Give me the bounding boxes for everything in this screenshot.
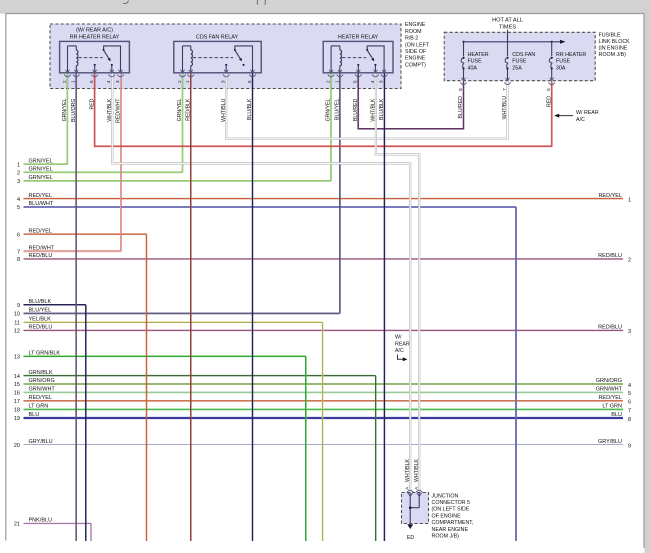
svg-text:ED: ED	[407, 535, 415, 541]
svg-text:1: 1	[71, 80, 76, 83]
svg-text:10: 10	[14, 312, 20, 318]
svg-text:GRN/WHT: GRN/WHT	[29, 387, 56, 393]
svg-text:2: 2	[628, 258, 631, 264]
svg-text:COMPT): COMPT)	[405, 62, 426, 68]
svg-text:FUSE: FUSE	[468, 59, 483, 65]
svg-text:(ON LEFT: (ON LEFT	[405, 42, 430, 48]
svg-text:RED: RED	[89, 98, 95, 109]
svg-text:5: 5	[353, 80, 358, 83]
svg-text:CDS FAN: CDS FAN	[512, 52, 535, 58]
svg-text:R/B 2: R/B 2	[405, 36, 418, 42]
svg-text:RED/BLU: RED/BLU	[598, 325, 622, 331]
svg-text:YEL/BLK: YEL/BLK	[29, 317, 52, 323]
svg-text:12: 12	[14, 329, 20, 335]
svg-text:3: 3	[628, 329, 631, 335]
svg-text:GRN/WHT: GRN/WHT	[596, 387, 623, 393]
svg-text:5: 5	[628, 391, 631, 397]
svg-text:15: 15	[14, 382, 20, 388]
svg-text:RED/YEL: RED/YEL	[598, 395, 622, 401]
svg-text:14: 14	[14, 374, 20, 380]
svg-text:1: 1	[17, 162, 20, 168]
svg-text:TIMES: TIMES	[499, 24, 516, 30]
svg-text:19: 19	[14, 416, 20, 422]
svg-text:RED: RED	[546, 96, 552, 107]
svg-text:5: 5	[89, 80, 94, 83]
svg-text:PNK/BLU: PNK/BLU	[29, 518, 53, 524]
svg-text:1: 1	[628, 197, 631, 203]
svg-text:FUSE: FUSE	[556, 59, 571, 65]
svg-text:BLU/YEL: BLU/YEL	[29, 308, 52, 314]
svg-text:2: 2	[177, 80, 182, 83]
svg-text:ROOM J/B): ROOM J/B)	[432, 534, 460, 540]
svg-text:RED/BLU: RED/BLU	[598, 253, 622, 259]
svg-text:1: 1	[185, 80, 190, 83]
svg-text:BLU/BLK: BLU/BLK	[379, 98, 385, 120]
svg-text:HEATER: HEATER	[468, 52, 489, 58]
svg-text:ENGINE: ENGINE	[405, 22, 426, 28]
svg-text:4: 4	[628, 383, 631, 389]
svg-text:(W/ REAR A/C): (W/ REAR A/C)	[76, 28, 113, 34]
svg-text:COMPARTMENT,: COMPARTMENT,	[432, 520, 474, 526]
svg-text:9: 9	[628, 443, 631, 449]
svg-text:17: 17	[14, 399, 20, 405]
svg-text:ENGINE: ENGINE	[405, 56, 426, 62]
svg-text:21: 21	[14, 522, 20, 528]
svg-text:RR HEATER: RR HEATER	[556, 52, 586, 58]
svg-text:LT GRN: LT GRN	[29, 404, 49, 410]
svg-text:RED/YEL: RED/YEL	[598, 193, 622, 199]
svg-text:BLU/YEL: BLU/YEL	[335, 98, 341, 119]
svg-text:CDS FAN RELAY: CDS FAN RELAY	[196, 34, 239, 40]
svg-text:7: 7	[17, 250, 20, 256]
svg-text:FUSE: FUSE	[512, 59, 527, 65]
svg-text:GRY/BLU: GRY/BLU	[598, 439, 622, 445]
svg-text:RED/BLU: RED/BLU	[29, 325, 53, 331]
svg-text:2: 2	[62, 80, 67, 83]
svg-text:GRN/ORG: GRN/ORG	[596, 378, 622, 384]
svg-text:RED/YEL: RED/YEL	[29, 395, 53, 401]
svg-text:GRN/YEL: GRN/YEL	[29, 175, 53, 181]
svg-text:RED/BLK: RED/BLK	[186, 98, 192, 121]
svg-text:8: 8	[628, 417, 631, 423]
svg-text:A/C: A/C	[576, 117, 585, 123]
svg-text:6: 6	[17, 232, 20, 238]
svg-text:WHT/BLK: WHT/BLK	[107, 98, 113, 122]
svg-text:GRN/ORG: GRN/ORG	[29, 378, 55, 384]
svg-text:NEAR ENGINE: NEAR ENGINE	[432, 527, 469, 533]
svg-text:BLU/ORG: BLU/ORG	[71, 99, 77, 122]
svg-text:CONNECTOR 5: CONNECTOR 5	[432, 500, 471, 506]
svg-text:GRN/YEL: GRN/YEL	[177, 98, 183, 121]
svg-text:WHT/BLK: WHT/BLK	[414, 458, 420, 482]
svg-text:3: 3	[221, 80, 226, 83]
svg-text:(IN ENGINE: (IN ENGINE	[599, 45, 628, 51]
svg-text:FUSIBLE: FUSIBLE	[599, 32, 622, 38]
svg-text:RED/YEL: RED/YEL	[29, 228, 53, 234]
svg-text:3: 3	[379, 80, 384, 83]
svg-text:40A: 40A	[468, 65, 478, 71]
svg-text:GRN/BLK: GRN/BLK	[29, 370, 53, 376]
svg-text:4: 4	[106, 80, 111, 83]
svg-text:9: 9	[17, 303, 20, 309]
svg-text:20: 20	[14, 443, 20, 449]
svg-text:8: 8	[458, 88, 463, 91]
svg-text:LT GRN: LT GRN	[602, 404, 622, 410]
svg-text:ROOM: ROOM	[405, 29, 421, 35]
svg-text:OF ENGINE: OF ENGINE	[432, 513, 462, 519]
svg-text:W/ REAR: W/ REAR	[576, 110, 599, 116]
svg-text:RED/WHT: RED/WHT	[29, 246, 55, 252]
svg-text:BLU/BLK: BLU/BLK	[247, 98, 253, 120]
svg-text:18: 18	[14, 408, 20, 414]
svg-text:RED/WHT: RED/WHT	[116, 98, 122, 123]
svg-text:GRN/YEL: GRN/YEL	[326, 98, 332, 121]
svg-text:A/C: A/C	[395, 348, 404, 354]
svg-text:GRN/YEL: GRN/YEL	[29, 158, 53, 164]
svg-text:16: 16	[14, 391, 20, 397]
svg-text:WHT/BLU: WHT/BLU	[502, 96, 508, 120]
svg-text:LT GRN/BLK: LT GRN/BLK	[29, 351, 61, 357]
svg-text:30A: 30A	[556, 65, 566, 71]
svg-text:RED/YEL: RED/YEL	[29, 193, 53, 199]
svg-text:BLU: BLU	[611, 412, 622, 418]
svg-text:JUNCTION: JUNCTION	[432, 493, 459, 499]
svg-text:RR HEATER RELAY: RR HEATER RELAY	[70, 34, 120, 40]
svg-text:WHT/BLK: WHT/BLK	[371, 98, 377, 122]
svg-text:GRN/YEL: GRN/YEL	[29, 167, 53, 173]
svg-text:4: 4	[370, 80, 375, 83]
svg-text:BLU/BLK: BLU/BLK	[29, 299, 52, 305]
svg-text:25A: 25A	[512, 65, 522, 71]
svg-text:5: 5	[247, 80, 252, 83]
svg-text:1: 1	[334, 80, 339, 83]
svg-text:RED/BLU: RED/BLU	[29, 253, 53, 259]
svg-text:6: 6	[628, 400, 631, 406]
svg-text:2: 2	[17, 171, 20, 177]
svg-text:BLU/RED: BLU/RED	[353, 98, 359, 121]
svg-text:4: 4	[17, 197, 20, 203]
svg-text:WHT/BLK: WHT/BLK	[405, 458, 411, 482]
svg-text:3: 3	[17, 179, 20, 185]
svg-text:5: 5	[546, 88, 551, 91]
svg-text:REAR: REAR	[395, 341, 410, 347]
svg-text:ROOM J/B): ROOM J/B)	[599, 52, 627, 58]
svg-text:BLU/WHT: BLU/WHT	[29, 201, 54, 207]
svg-text:7: 7	[628, 408, 631, 414]
svg-text:5: 5	[17, 205, 20, 211]
svg-text:BLU/RED: BLU/RED	[458, 96, 464, 119]
svg-text:11: 11	[14, 321, 20, 327]
svg-text:HEATER RELAY: HEATER RELAY	[338, 34, 379, 40]
svg-text:WHT/BLU: WHT/BLU	[221, 98, 227, 122]
svg-text:SIDE OF: SIDE OF	[405, 49, 427, 55]
svg-text:W/: W/	[395, 335, 402, 341]
svg-text:BLU: BLU	[29, 412, 40, 418]
svg-text:GRY/BLU: GRY/BLU	[29, 439, 53, 445]
svg-text:13: 13	[14, 355, 20, 361]
svg-text:3: 3	[115, 80, 120, 83]
svg-text:8: 8	[17, 257, 20, 263]
svg-text:2: 2	[326, 80, 331, 83]
svg-text:LINK BLOCK: LINK BLOCK	[599, 39, 631, 45]
svg-text:GRN/YEL: GRN/YEL	[62, 98, 68, 121]
svg-text:(ON LEFT SIDE: (ON LEFT SIDE	[432, 507, 470, 513]
svg-text:HOT AT ALL: HOT AT ALL	[492, 18, 523, 24]
svg-text:7: 7	[502, 88, 507, 91]
